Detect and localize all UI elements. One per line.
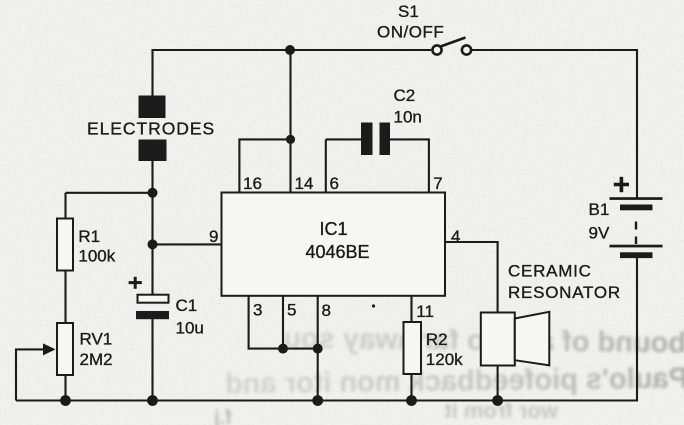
svg-text:B1: B1 — [589, 200, 610, 219]
svg-text:14: 14 — [295, 174, 314, 193]
svg-text:2M2: 2M2 — [80, 350, 113, 369]
svg-text:120k: 120k — [426, 350, 463, 369]
svg-text:4: 4 — [451, 227, 460, 246]
svg-text:10n: 10n — [394, 107, 422, 126]
svg-text:9V: 9V — [589, 223, 610, 242]
svg-text:5: 5 — [287, 301, 296, 320]
svg-text:CERAMIC: CERAMIC — [508, 262, 592, 281]
svg-text:100k: 100k — [78, 247, 115, 266]
svg-text:16: 16 — [243, 174, 262, 193]
svg-text:9: 9 — [209, 227, 218, 246]
svg-text:7: 7 — [433, 174, 442, 193]
svg-text:ELECTRODES: ELECTRODES — [87, 119, 215, 139]
svg-text:S1: S1 — [398, 2, 419, 21]
svg-text:C1: C1 — [176, 296, 198, 315]
svg-text:IC1: IC1 — [319, 219, 347, 239]
svg-text:C2: C2 — [394, 86, 416, 105]
svg-text:8: 8 — [322, 301, 331, 320]
svg-text:3: 3 — [253, 301, 262, 320]
svg-text:RESONATOR: RESONATOR — [508, 283, 621, 302]
svg-text:R2: R2 — [426, 330, 448, 349]
svg-text:6: 6 — [330, 174, 339, 193]
svg-text:RV1: RV1 — [80, 330, 113, 349]
svg-text:ON/OFF: ON/OFF — [377, 23, 444, 42]
svg-text:f.j: f.j — [214, 407, 232, 425]
svg-text:4046BE: 4046BE — [305, 242, 369, 262]
svg-text:11: 11 — [416, 302, 434, 321]
svg-text:R1: R1 — [78, 227, 100, 246]
svg-text:10u: 10u — [176, 319, 204, 338]
